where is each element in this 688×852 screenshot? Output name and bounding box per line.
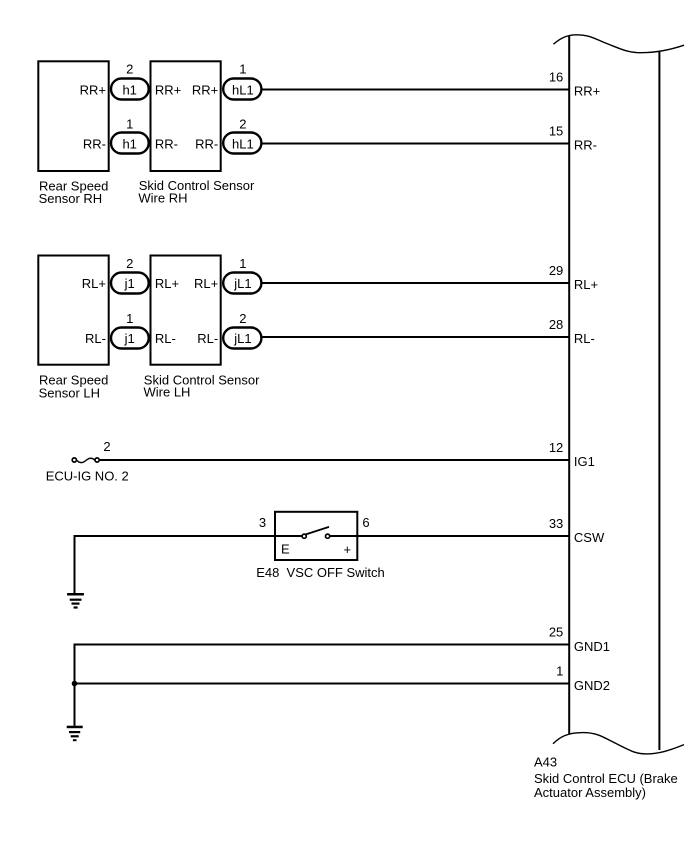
svg-text:RL+: RL+ xyxy=(82,276,106,291)
wire VSC OFF switch to ECU pin 33 xyxy=(330,535,571,537)
wire RR+ to ECU pin 16 xyxy=(263,89,571,91)
svg-text:A43: A43 xyxy=(534,754,557,769)
svg-text:RR+: RR+ xyxy=(155,83,181,98)
svg-text:Actuator Assembly): Actuator Assembly) xyxy=(534,785,646,800)
svg-text:RL-: RL- xyxy=(197,331,218,346)
label A43 Skid Control ECU (Brake Actuator Assembly) xyxy=(534,754,678,799)
svg-text:3: 3 xyxy=(259,515,266,530)
svg-text:25: 25 xyxy=(549,625,563,640)
wire IG1 to ECU pin 12 xyxy=(100,459,570,461)
switch contact circle right xyxy=(326,534,330,538)
box: Skid Control Sensor Wire LH xyxy=(151,256,221,365)
svg-text:h1: h1 xyxy=(122,136,136,151)
svg-text:1: 1 xyxy=(239,62,246,77)
box: Rear Speed Sensor LH xyxy=(38,256,108,365)
svg-text:hL1: hL1 xyxy=(232,136,254,151)
svg-text:hL1: hL1 xyxy=(232,82,254,97)
svg-text:RR+: RR+ xyxy=(574,83,600,98)
connector j1 pin 2 (oval) xyxy=(111,273,149,294)
wire GND vertical to ground xyxy=(74,644,76,726)
wire GND1 to ECU pin 25 xyxy=(75,644,571,646)
svg-text:2: 2 xyxy=(126,256,133,271)
connector jL1 pin 2 (oval) xyxy=(223,328,261,349)
connector h1 pin 1 (oval) xyxy=(111,133,149,154)
wire GND2 to ECU pin 1 xyxy=(75,683,571,685)
svg-text:GND1: GND1 xyxy=(574,639,610,654)
svg-text:E48 VSC OFF Switch: E48 VSC OFF Switch xyxy=(256,565,385,580)
wire RL+ to ECU pin 29 xyxy=(263,282,571,284)
label: Rear Speed Sensor LH xyxy=(39,373,109,401)
svg-text:2: 2 xyxy=(126,62,133,77)
junction dot (GND wires) xyxy=(72,681,78,687)
svg-text:RR+: RR+ xyxy=(192,83,218,98)
connector h1 pin 2 (oval) xyxy=(111,79,149,100)
connector jL1 pin 1 (oval) xyxy=(223,273,261,294)
svg-text:j1: j1 xyxy=(124,276,135,291)
svg-text:j1: j1 xyxy=(124,331,135,346)
label: Skid Control Sensor Wire RH xyxy=(138,178,255,205)
svg-text:RL+: RL+ xyxy=(574,277,598,292)
svg-text:1: 1 xyxy=(556,664,563,679)
svg-text:1: 1 xyxy=(239,256,246,271)
svg-text:RL-: RL- xyxy=(574,331,595,346)
svg-text:ECU-IG NO. 2: ECU-IG NO. 2 xyxy=(46,468,129,483)
svg-text:jL1: jL1 xyxy=(233,276,251,291)
svg-text:E: E xyxy=(281,542,290,557)
switch contact circle left xyxy=(302,534,306,538)
svg-text:IG1: IG1 xyxy=(574,454,595,469)
fuse element (wavy link) xyxy=(77,458,95,462)
svg-text:1: 1 xyxy=(126,116,133,131)
svg-text:RR+: RR+ xyxy=(80,83,106,98)
svg-text:28: 28 xyxy=(549,317,563,332)
connector hL1 pin 2 (oval) xyxy=(223,133,261,154)
svg-text:2: 2 xyxy=(103,439,110,454)
label: Rear Speed Sensor RH xyxy=(39,178,109,206)
svg-text:CSW: CSW xyxy=(574,530,605,545)
svg-text:RR-: RR- xyxy=(83,137,106,152)
svg-text:1: 1 xyxy=(126,311,133,326)
connector A43 right edge xyxy=(658,52,660,751)
switch box E48 xyxy=(275,512,357,560)
svg-text:2: 2 xyxy=(239,311,246,326)
wire RL- to ECU pin 28 xyxy=(263,336,571,338)
connector A43 top torn edge (wave) xyxy=(554,35,685,53)
svg-text:h1: h1 xyxy=(122,82,136,97)
svg-text:jL1: jL1 xyxy=(233,331,251,346)
label: Skid Control Sensor Wire LH xyxy=(144,372,261,399)
connector A43 bottom torn edge (wave) xyxy=(553,733,684,754)
svg-text:RL+: RL+ xyxy=(194,276,218,291)
svg-text:GND2: GND2 xyxy=(574,678,610,693)
svg-text:Sensor LH: Sensor LH xyxy=(39,385,100,400)
wire switch to ground (vertical) xyxy=(74,535,76,593)
svg-text:16: 16 xyxy=(549,70,563,85)
connector hL1 pin 1 (oval) xyxy=(223,79,261,100)
svg-text:12: 12 xyxy=(549,440,563,455)
svg-text:+: + xyxy=(344,542,352,557)
connector A43 left edge xyxy=(568,36,570,735)
connector j1 pin 1 (oval) xyxy=(111,328,149,349)
svg-text:RL-: RL- xyxy=(85,331,106,346)
svg-text:Sensor RH: Sensor RH xyxy=(39,191,103,206)
svg-text:Wire LH: Wire LH xyxy=(144,385,191,400)
svg-text:Skid Control ECU (Brake: Skid Control ECU (Brake xyxy=(534,771,678,786)
svg-text:Wire RH: Wire RH xyxy=(138,190,187,205)
svg-text:RR-: RR- xyxy=(574,137,597,152)
svg-text:15: 15 xyxy=(549,124,563,139)
box: Skid Control Sensor Wire RH xyxy=(151,61,221,171)
ground symbol (VSC OFF switch) xyxy=(67,593,84,609)
svg-text:33: 33 xyxy=(549,516,563,531)
wire ground to VSC OFF switch xyxy=(75,535,303,537)
box: Rear Speed Sensor RH xyxy=(38,61,108,171)
svg-text:RR-: RR- xyxy=(195,137,218,152)
wire RR- to ECU pin 15 xyxy=(263,143,571,145)
fuse ECU-IG NO. 2 terminal circle right xyxy=(95,458,99,462)
svg-text:RL-: RL- xyxy=(155,331,176,346)
switch blade xyxy=(306,527,329,535)
svg-text:29: 29 xyxy=(549,263,563,278)
svg-text:RL+: RL+ xyxy=(155,276,179,291)
svg-text:6: 6 xyxy=(362,515,369,530)
ground symbol (GND1/GND2) xyxy=(67,726,83,742)
fuse ECU-IG NO. 2 terminal circle left xyxy=(72,458,76,462)
svg-text:2: 2 xyxy=(239,116,246,131)
svg-text:RR-: RR- xyxy=(155,137,178,152)
